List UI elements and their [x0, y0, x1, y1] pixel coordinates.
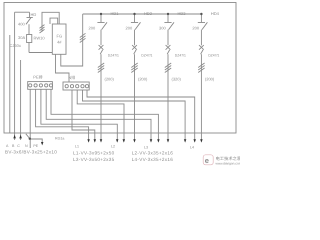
- svg-text:N排: N排: [68, 75, 75, 80]
- svg-text:L2: L2: [111, 145, 115, 149]
- svg-text:L1-VV-3x95+2x50: L1-VV-3x95+2x50: [73, 151, 115, 156]
- svg-text:电工技术之家: 电工技术之家: [216, 156, 241, 161]
- svg-text:(200): (200): [105, 77, 115, 82]
- svg-text:(200): (200): [205, 77, 215, 82]
- svg-text:HD1: HD1: [111, 11, 120, 16]
- svg-text:RG1a: RG1a: [55, 137, 64, 141]
- svg-text:L4-VV-3x35+2x16: L4-VV-3x35+2x16: [132, 157, 174, 162]
- svg-text:200: 200: [126, 25, 133, 30]
- svg-text:PE排: PE排: [33, 75, 42, 80]
- svg-text:HD2: HD2: [144, 11, 153, 16]
- svg-text:4#: 4#: [57, 40, 62, 45]
- svg-text:L4: L4: [190, 146, 194, 150]
- svg-text:DZ47/1: DZ47/1: [141, 54, 152, 58]
- svg-text:200: 200: [89, 25, 96, 30]
- svg-text:DZ47/1: DZ47/1: [175, 54, 186, 58]
- svg-text:BV-3x6/BV-3x25+2x10: BV-3x6/BV-3x25+2x10: [5, 150, 57, 155]
- svg-text:e: e: [205, 156, 209, 165]
- svg-text:L1: L1: [75, 145, 79, 149]
- svg-text:www.diangon.com: www.diangon.com: [216, 162, 241, 166]
- svg-text:RW10: RW10: [34, 36, 46, 41]
- svg-text:DZ47/1: DZ47/1: [108, 54, 119, 58]
- svg-text:(200): (200): [138, 77, 148, 82]
- svg-text:HD: HD: [31, 12, 37, 17]
- svg-text:400: 400: [18, 22, 25, 27]
- svg-text:(320): (320): [172, 77, 182, 82]
- svg-text:L3: L3: [144, 146, 148, 150]
- svg-text:300: 300: [159, 25, 166, 30]
- svg-text:30A: 30A: [18, 35, 25, 40]
- svg-text:PE: PE: [33, 144, 38, 148]
- svg-text:CJ60x: CJ60x: [10, 43, 21, 48]
- svg-text:DZ47/1: DZ47/1: [208, 54, 219, 58]
- svg-text:L2-VV-3x35+2x16: L2-VV-3x35+2x16: [132, 151, 174, 156]
- svg-text:HD3: HD3: [178, 11, 187, 16]
- svg-text:200: 200: [192, 25, 199, 30]
- svg-text:HD4: HD4: [211, 11, 220, 16]
- svg-text:L3-VV-3x50+2x35: L3-VV-3x50+2x35: [73, 157, 115, 162]
- svg-text:N: N: [25, 144, 28, 148]
- svg-text:FG: FG: [57, 34, 63, 39]
- svg-text:C: C: [17, 144, 20, 148]
